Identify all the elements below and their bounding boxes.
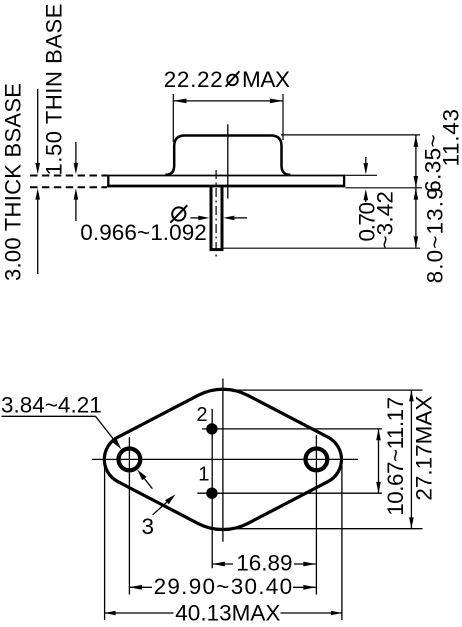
svg-text:16.89: 16.89	[236, 551, 292, 576]
leader 3.84~4.21 shoulder	[2, 415, 96, 417]
pin side view left wall	[210, 187, 213, 251]
dimension 22.22 dia max line	[173, 100, 283, 102]
dimension 16.89 line	[212, 563, 233, 565]
svg-text:40.13MAX: 40.13MAX	[175, 601, 280, 626]
pin centerline dash-dot	[215, 170, 217, 257]
base dashed extension line lower	[30, 186, 107, 188]
package flange outline	[104, 389, 341, 529]
dimension 3.00 thick base upper arrow	[37, 89, 39, 164]
svg-text:3: 3	[142, 514, 155, 539]
pin 2 horizontal extension line	[202, 428, 382, 430]
svg-text:1: 1	[198, 463, 209, 485]
svg-text:8.0~13.9: 8.0~13.9	[422, 187, 447, 283]
svg-text:1.50 THIN BASE: 1.50 THIN BASE	[42, 4, 67, 176]
dimension 0.70~3.42 upper arrow	[365, 157, 367, 164]
extension line 40.13 right	[341, 465, 343, 620]
right hole vertical centerline	[315, 435, 317, 595]
second arrow of hole diameter on far side	[144, 479, 152, 489]
dimension 22.22 dia max extension line right	[282, 94, 284, 140]
leader 3 with arrow	[153, 502, 167, 515]
extension line flange top to right	[346, 174, 378, 176]
left hole vertical centerline	[128, 437, 130, 595]
pin side view bottom	[210, 248, 224, 251]
pin 2 dot	[206, 423, 217, 434]
flange side view right end	[343, 175, 345, 188]
dimension 27.17MAX line	[410, 390, 412, 529]
mounting hole right	[306, 449, 328, 471]
svg-text:29.90~30.40: 29.90~30.40	[154, 574, 293, 599]
svg-text:11.43: 11.43	[438, 109, 462, 167]
dimension 1.50 thin base lower arrow	[75, 199, 77, 221]
dimension 22.22 dia max extension line left	[172, 94, 174, 142]
dimension 6.35~11.43 line	[415, 135, 417, 187]
svg-text:3.00 THICK BSASE: 3.00 THICK BSASE	[1, 83, 26, 281]
extension line cap top to right	[281, 134, 420, 136]
svg-text:MAX: MAX	[242, 67, 290, 92]
can cap outline	[165, 136, 290, 175]
svg-text:3.84~4.21: 3.84~4.21	[1, 393, 102, 418]
top vertex extension line	[226, 389, 423, 391]
extension line flange bottom to right	[346, 187, 423, 189]
dimension 40.13MAX line	[105, 612, 174, 614]
flange side view left end	[107, 175, 109, 188]
extension line pin bottom to right	[224, 247, 421, 249]
can centerline	[227, 124, 229, 198]
dimension 10.67~11.17 line	[378, 429, 380, 493]
svg-text:2: 2	[196, 404, 207, 426]
extension line 40.13 left	[104, 465, 106, 620]
svg-text:27.17MAX: 27.17MAX	[411, 396, 436, 501]
dimension 29.90~30.40 line	[129, 586, 152, 588]
pin column vertical line	[211, 409, 213, 569]
mounting hole left	[118, 449, 140, 471]
leader 3.84~4.21 diagonal with arrow to hole	[96, 416, 115, 440]
pin side view right wall	[221, 187, 224, 251]
flange side view bottom edge	[107, 185, 345, 188]
pin diameter arrow left	[191, 217, 200, 219]
bottom vertex extension line	[237, 528, 423, 530]
flange side view top edge	[107, 175, 345, 177]
pin diameter arrow right	[234, 217, 248, 219]
base dashed extension line upper	[30, 175, 107, 177]
horizontal centerline	[92, 458, 358, 460]
dia symbol for pin	[172, 207, 185, 220]
svg-text:10.67~11.17: 10.67~11.17	[383, 397, 408, 516]
pin 1 dot	[206, 488, 217, 499]
dimension 1.50 thin base upper arrow	[75, 142, 77, 164]
svg-text:22.22: 22.22	[164, 67, 223, 92]
svg-text:~3.42: ~3.42	[373, 191, 398, 249]
pin 1 horizontal extension line	[197, 492, 382, 494]
package vertical centerline	[222, 379, 224, 542]
dimension 3.00 thick base lower arrow	[37, 199, 39, 274]
dimension 0.70~3.42 lower arrow	[365, 200, 367, 202]
svg-text:0.966~1.092: 0.966~1.092	[80, 220, 207, 245]
dimension 8.0~13.9 line	[415, 188, 417, 247]
